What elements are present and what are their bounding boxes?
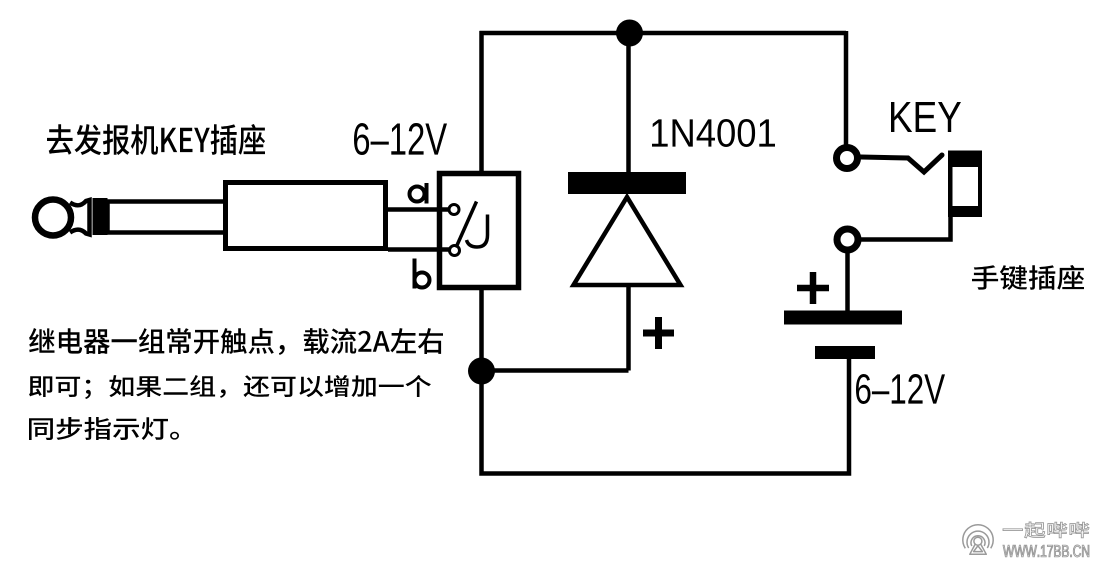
note line 1: 继电器一组常开触点，载流2A左右	[29, 328, 443, 355]
key jack terminal lower	[837, 229, 858, 250]
relay contact terminal b	[450, 246, 460, 256]
label 手键插座	[972, 265, 1084, 290]
junction dot: top node	[616, 20, 643, 47]
watermark text 一起哔哔	[1003, 522, 1089, 538]
phone plug neck	[70, 200, 90, 235]
label 6-12V relay coil supply	[354, 123, 447, 155]
wire: diode anode vertical	[626, 285, 631, 371]
battery B1 positive plate	[784, 311, 902, 325]
wire: lower node to diode anode	[482, 368, 629, 373]
watermark text WWW.17BB.CN	[1003, 545, 1089, 557]
wire: diode branch vertical	[626, 33, 631, 176]
phone plug insulator band	[93, 198, 108, 235]
note line 3: 同步指示灯。	[29, 417, 179, 440]
diode D1 cathode bar	[568, 172, 686, 194]
wire: relay box bottom to lower node and bottom return to battery	[482, 288, 850, 474]
terminal label a	[410, 183, 427, 204]
wire: key jack sleeve to lower terminal	[861, 216, 951, 240]
terminal label b	[415, 259, 430, 289]
key switch lever	[861, 155, 942, 172]
phone plug tip ball	[35, 200, 71, 236]
label 去发报机KEY插座	[47, 124, 265, 155]
relay J box	[440, 174, 519, 288]
wire: plug lead b	[388, 247, 450, 252]
relay contact terminal a	[449, 205, 459, 215]
relay designator J	[467, 215, 488, 248]
battery B1 negative plate	[815, 346, 875, 359]
battery polarity +	[797, 272, 829, 304]
junction dot: lower node	[468, 358, 495, 385]
watermark broadcast icon	[963, 525, 993, 555]
label 6-12V battery	[856, 374, 945, 404]
diode D1 anode triangle	[574, 197, 681, 285]
polarity + near diode anode	[643, 317, 674, 349]
wire: key branch right vertical	[844, 31, 849, 147]
wire: top horizontal bus	[480, 31, 847, 36]
label KEY	[891, 102, 961, 132]
phone plug body	[226, 183, 386, 249]
relay switch arm (slash)	[456, 202, 477, 248]
wire: lower terminal to battery positive	[845, 250, 850, 312]
phone plug shaft	[108, 202, 228, 233]
key jack terminal upper	[837, 148, 858, 169]
wire: relay branch left vertical	[479, 31, 484, 173]
label 1N4001	[652, 119, 775, 147]
key jack symbol (plug outline)	[948, 151, 982, 218]
note line 2: 即可；如果二组，还可以增加一个	[29, 375, 431, 399]
wire: plug lead a	[388, 207, 450, 212]
